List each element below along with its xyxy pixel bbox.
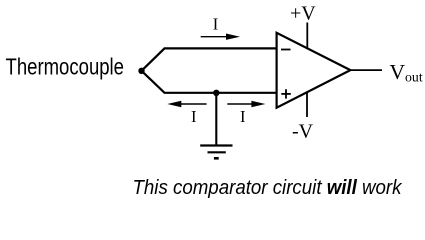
ground symbol (200, 146, 232, 159)
svg-text:I: I (213, 15, 219, 34)
svg-text:Thermocouple: Thermocouple (6, 54, 125, 80)
svg-text:I: I (191, 107, 197, 126)
svg-text:+V: +V (290, 3, 316, 25)
svg-text:I: I (240, 107, 246, 126)
-V supply wire (306, 92, 308, 117)
node A (thermocouple output junction) (138, 68, 144, 74)
current arrow I (bottom right, pointing right) (227, 101, 265, 107)
+V supply wire (306, 23, 308, 49)
junction node (ground tap) (213, 90, 219, 96)
current arrow I (top wire) (201, 34, 240, 40)
svg-text:This comparator circuit will w: This comparator circuit will work (133, 177, 403, 199)
current arrow I (bottom left, pointing left) (167, 101, 206, 107)
wire: node A to non-inverting input (142, 71, 277, 93)
op-amp U1 body (277, 33, 351, 108)
wire: node A to inverting input (142, 48, 277, 70)
svg-text:Vout: Vout (390, 60, 423, 84)
output wire (350, 69, 382, 71)
op-amp non-inverting input marker (281, 89, 291, 98)
svg-text:-V: -V (292, 121, 314, 143)
op-amp inverting input marker (281, 49, 291, 51)
wire: junction to ground (215, 93, 217, 146)
